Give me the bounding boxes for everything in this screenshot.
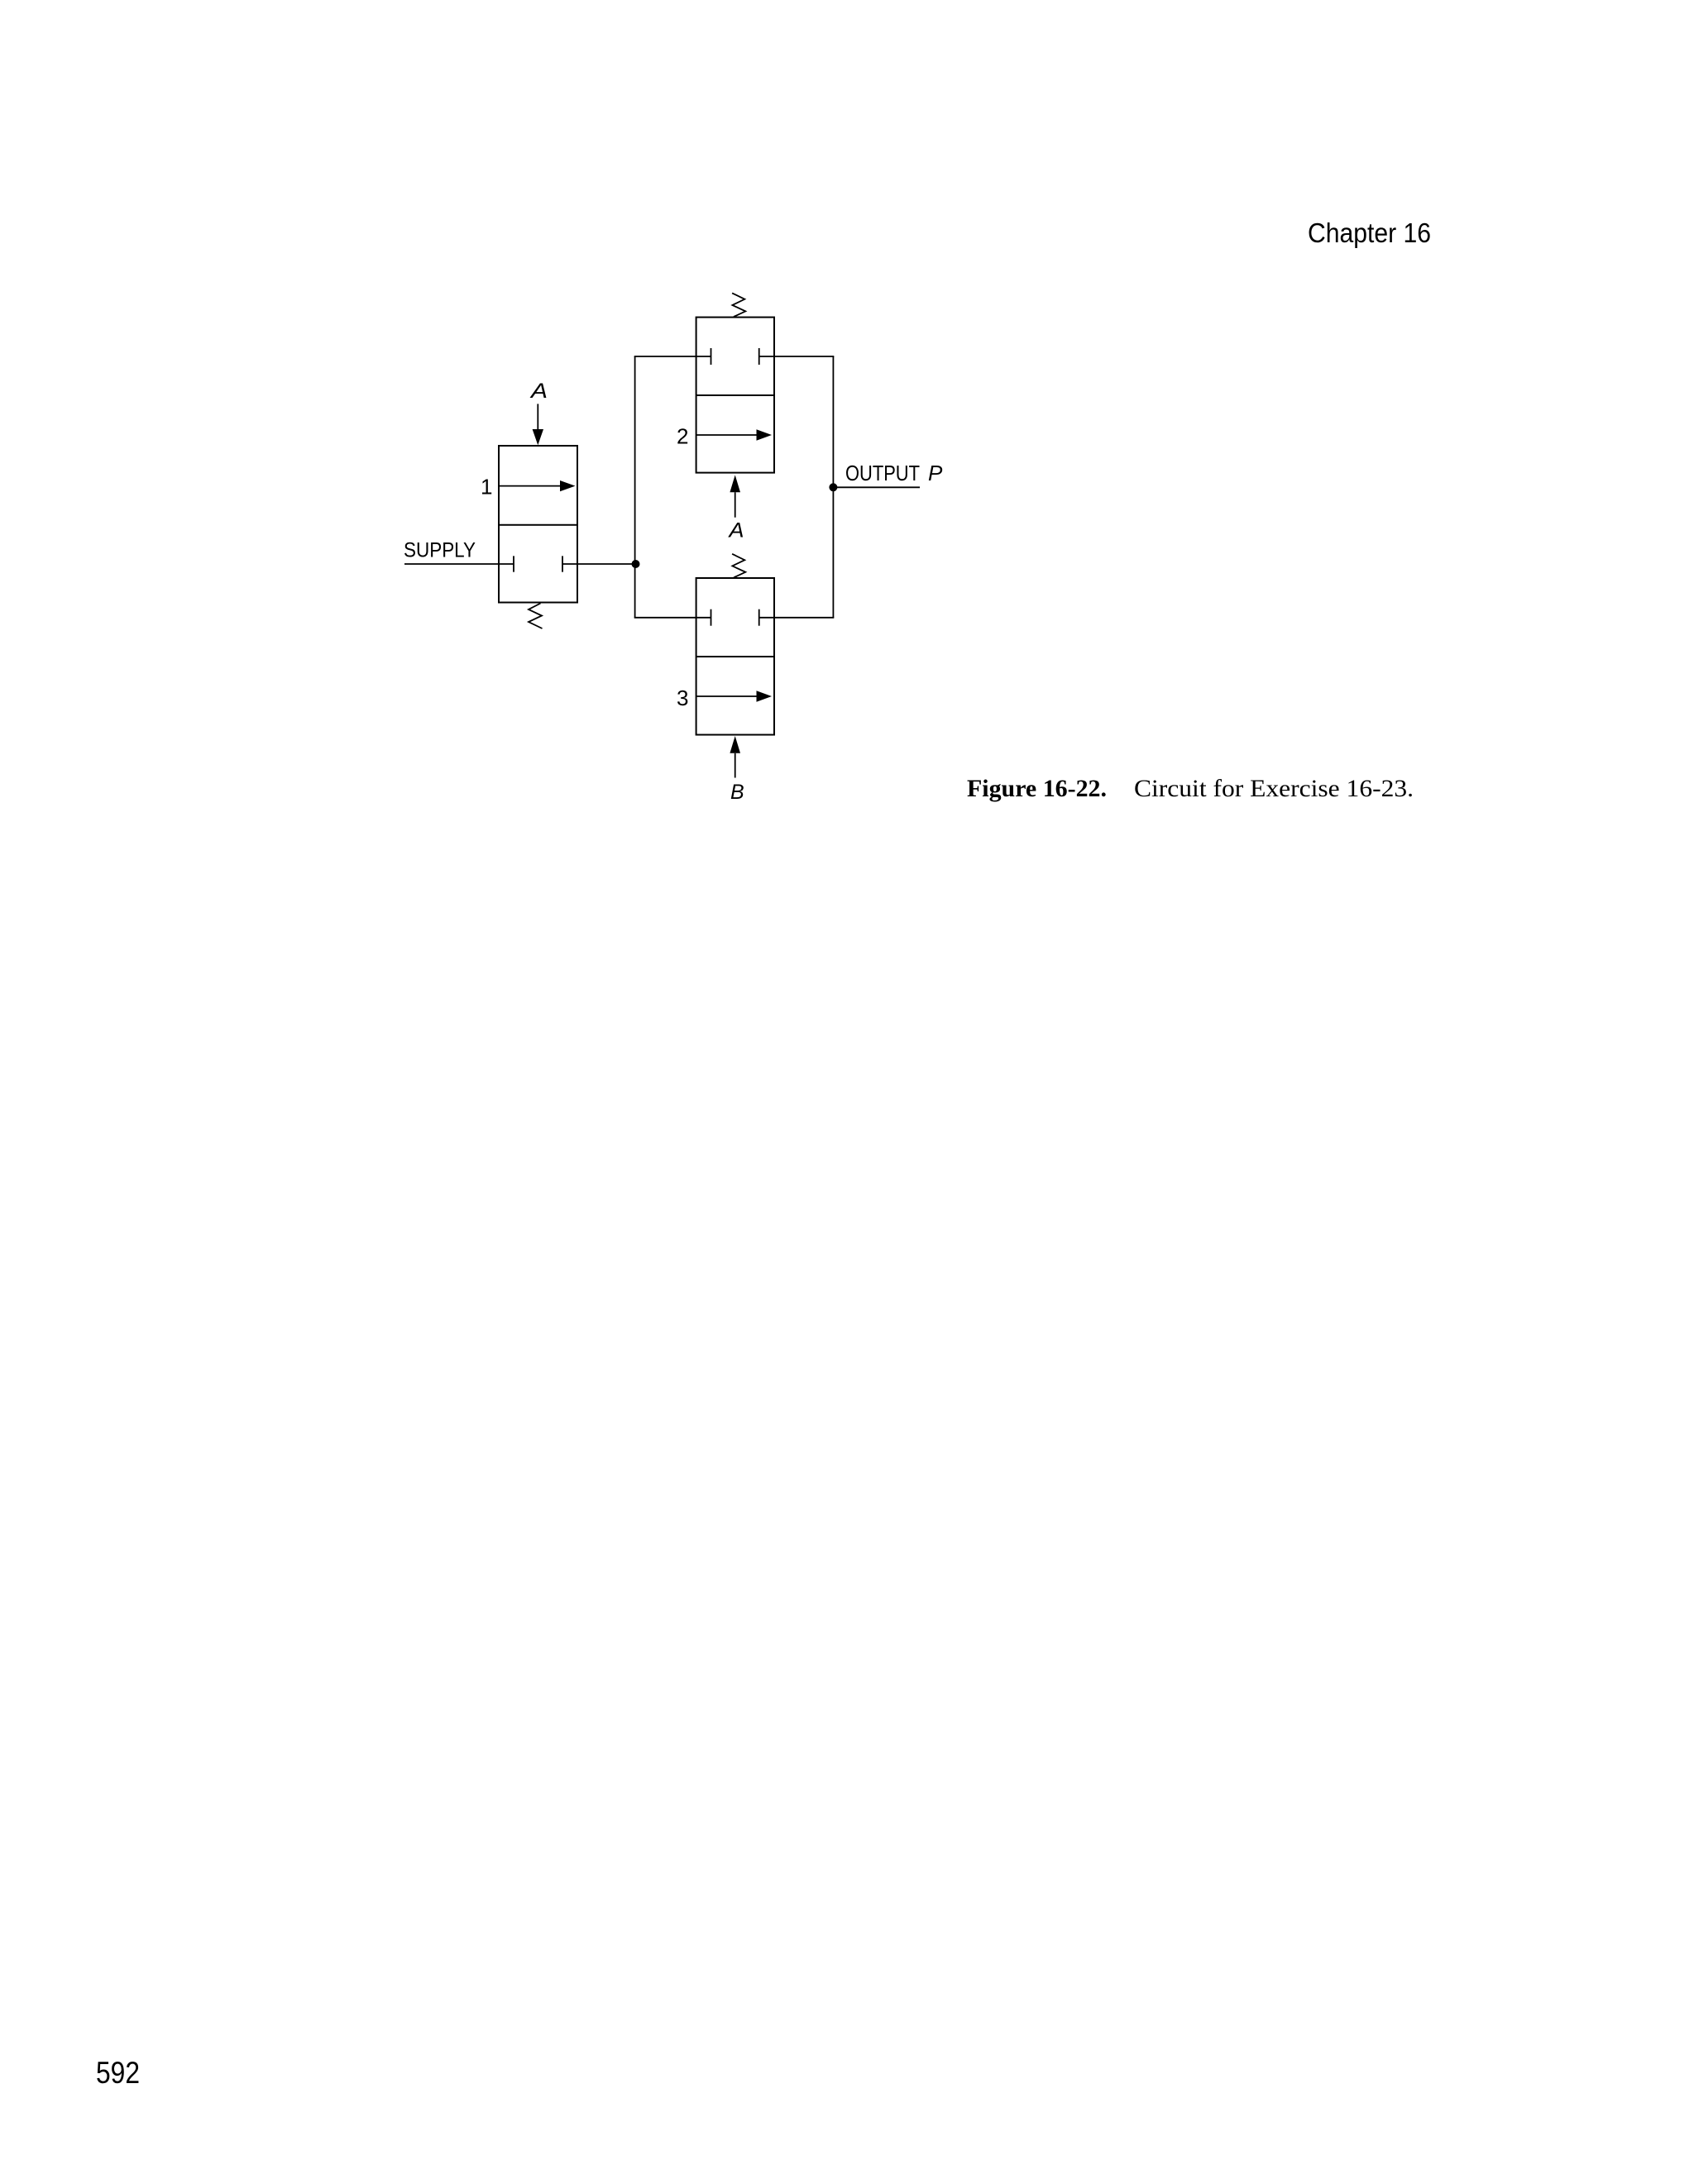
svg-text:A: A xyxy=(529,380,548,403)
svg-text:1: 1 xyxy=(481,475,492,499)
svg-text:OUTPUT: OUTPUT xyxy=(845,461,920,485)
svg-text:2: 2 xyxy=(677,424,688,449)
svg-text:Chapter 16: Chapter 16 xyxy=(1308,217,1431,248)
svg-text:SUPPLY: SUPPLY xyxy=(404,539,476,562)
svg-text:592: 592 xyxy=(96,2056,140,2090)
svg-text:P: P xyxy=(928,461,943,485)
svg-text:3: 3 xyxy=(677,686,688,710)
svg-text:Figure 16-22.: Figure 16-22. xyxy=(967,775,1107,802)
svg-text:A: A xyxy=(727,519,744,542)
svg-text:B: B xyxy=(730,781,744,804)
svg-text:Circuit for Exercise 16-23.: Circuit for Exercise 16-23. xyxy=(1134,775,1414,802)
